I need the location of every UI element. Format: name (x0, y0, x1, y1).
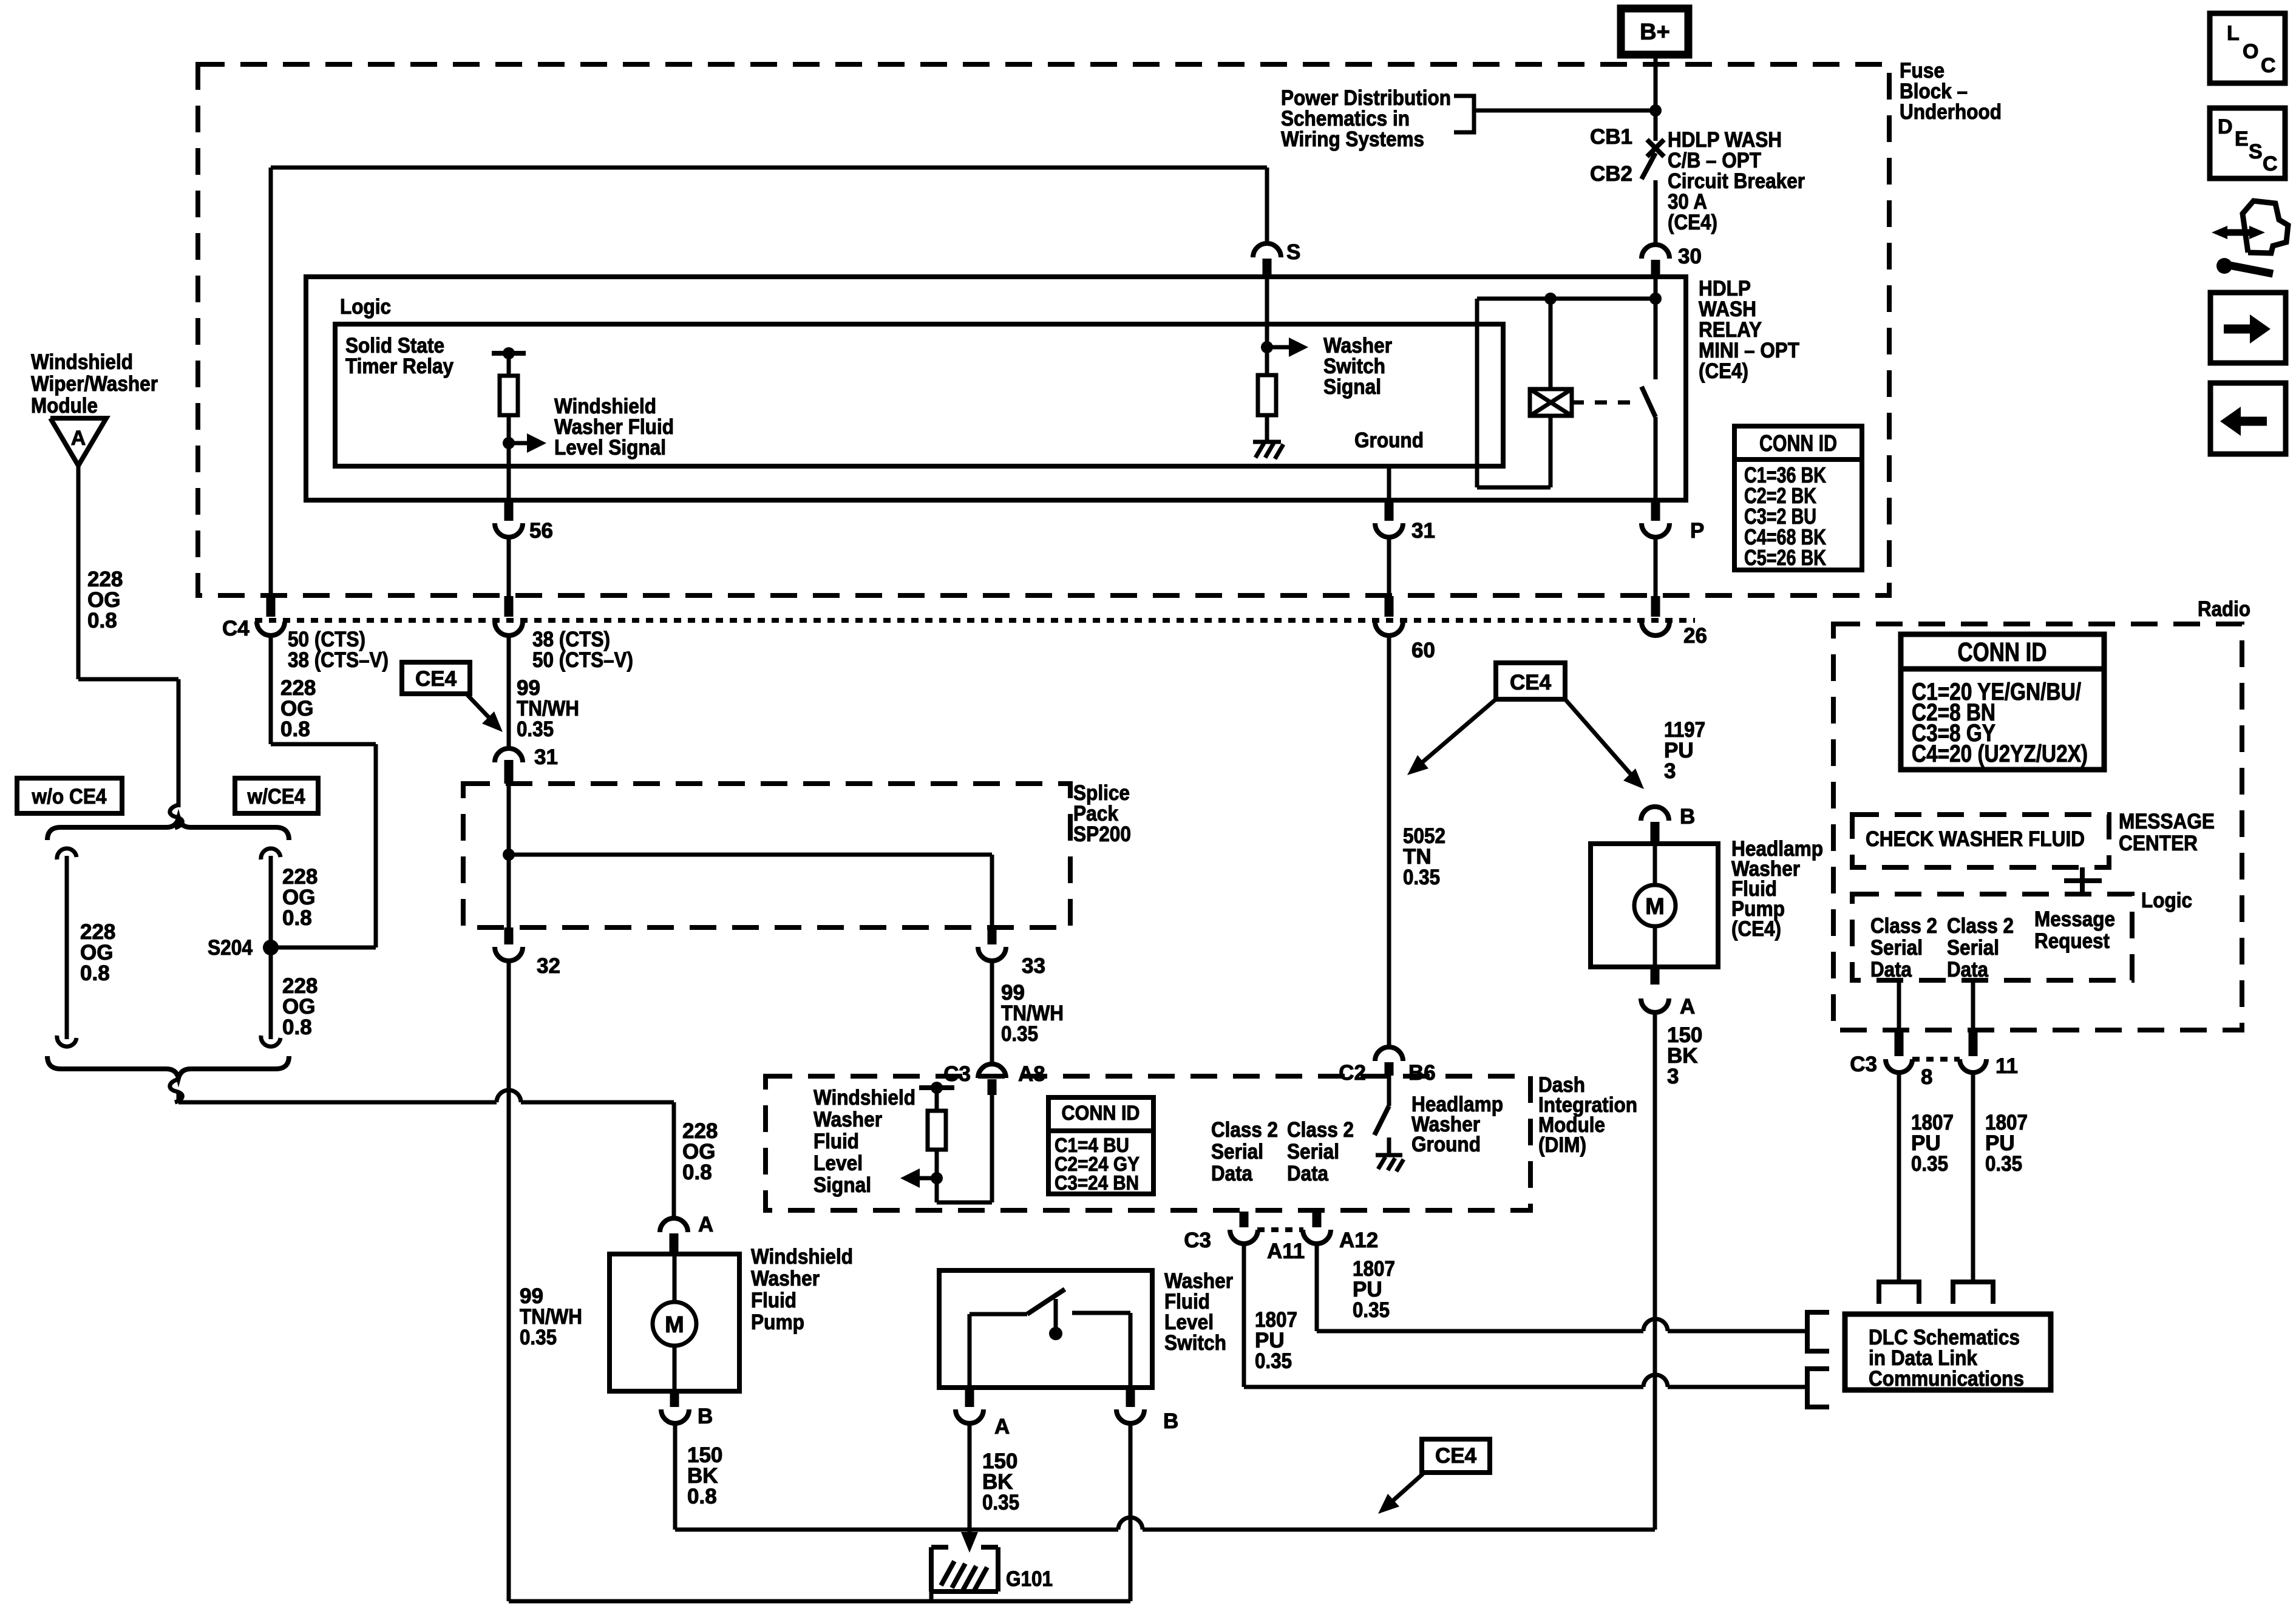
svg-text:Ground: Ground (1354, 429, 1424, 452)
svg-text:Timer Relay: Timer Relay (345, 354, 453, 378)
svg-text:Serial: Serial (1870, 936, 1923, 960)
svg-text:Data: Data (1947, 958, 1988, 981)
svg-text:Wiring Systems: Wiring Systems (1281, 127, 1424, 151)
svg-text:C5=26 BK: C5=26 BK (1744, 545, 1826, 570)
svg-text:A11: A11 (1267, 1239, 1305, 1263)
svg-text:P: P (1690, 519, 1704, 543)
svg-text:0.35: 0.35 (1255, 1349, 1292, 1373)
svg-text:Request: Request (2034, 929, 2110, 953)
svg-text:31: 31 (534, 745, 558, 769)
svg-text:Level Signal: Level Signal (554, 436, 666, 459)
svg-text:CENTER: CENTER (2119, 832, 2198, 855)
svg-text:C3: C3 (1850, 1053, 1877, 1076)
svg-text:C: C (2263, 152, 2278, 175)
svg-text:Data: Data (1287, 1162, 1328, 1185)
svg-text:31: 31 (1411, 519, 1435, 543)
svg-text:0.8: 0.8 (682, 1161, 712, 1184)
svg-text:S: S (2249, 140, 2263, 163)
svg-text:0.35: 0.35 (982, 1491, 1019, 1514)
svg-text:11: 11 (1995, 1054, 2018, 1078)
svg-text:D: D (2218, 115, 2233, 138)
svg-text:M: M (1645, 894, 1665, 920)
svg-text:E: E (2235, 127, 2249, 151)
svg-text:0.8: 0.8 (87, 609, 117, 632)
svg-text:B: B (1163, 1409, 1178, 1433)
svg-text:26: 26 (1683, 624, 1707, 648)
svg-text:C4=20 (U2YZ/U2X): C4=20 (U2YZ/U2X) (1912, 741, 2088, 767)
svg-text:Class 2: Class 2 (1870, 914, 1937, 938)
svg-text:Switch: Switch (1164, 1331, 1226, 1355)
svg-text:(CE4): (CE4) (1699, 359, 1748, 383)
svg-text:0.35: 0.35 (520, 1326, 557, 1349)
svg-text:32: 32 (537, 954, 560, 978)
svg-text:Washer: Washer (813, 1108, 882, 1131)
svg-text:S204: S204 (208, 936, 253, 960)
svg-text:B: B (1680, 805, 1695, 829)
svg-text:w/o CE4: w/o CE4 (32, 785, 107, 808)
svg-text:Module: Module (31, 394, 98, 418)
svg-text:0.35: 0.35 (1353, 1298, 1390, 1322)
svg-text:Serial: Serial (1287, 1140, 1339, 1164)
svg-text:3: 3 (1664, 759, 1676, 783)
svg-text:Windshield: Windshield (751, 1245, 853, 1269)
svg-text:50 (CTS–V): 50 (CTS–V) (532, 648, 633, 672)
svg-text:Pump: Pump (751, 1310, 804, 1334)
svg-text:0.8: 0.8 (282, 1015, 312, 1039)
svg-text:O: O (2243, 40, 2258, 63)
svg-text:L: L (2227, 22, 2240, 45)
svg-text:38 (CTS–V): 38 (CTS–V) (288, 648, 389, 672)
svg-text:Level: Level (813, 1151, 863, 1175)
svg-text:Class 2: Class 2 (1947, 914, 2014, 938)
svg-text:3: 3 (1667, 1065, 1679, 1088)
svg-text:G101: G101 (1006, 1567, 1053, 1591)
svg-text:Underhood: Underhood (1900, 100, 2002, 124)
svg-text:8: 8 (1921, 1065, 1932, 1089)
svg-text:0.8: 0.8 (280, 717, 310, 741)
svg-text:0.35: 0.35 (1985, 1152, 2022, 1176)
svg-text:Communications: Communications (1869, 1367, 2024, 1391)
svg-text:(CE4): (CE4) (1668, 211, 1717, 234)
svg-text:Message: Message (2034, 907, 2115, 931)
svg-text:C3=24 BN: C3=24 BN (1055, 1171, 1139, 1194)
svg-text:CB2: CB2 (1590, 162, 1632, 186)
svg-text:w/CE4: w/CE4 (247, 785, 305, 808)
svg-text:CB1: CB1 (1590, 125, 1632, 149)
svg-text:B6: B6 (1408, 1061, 1436, 1085)
svg-text:0.35: 0.35 (517, 717, 554, 741)
svg-text:Serial: Serial (1211, 1140, 1263, 1164)
svg-text:C2: C2 (1339, 1061, 1366, 1085)
svg-text:Radio: Radio (2198, 597, 2250, 621)
svg-text:Wiper/Washer: Wiper/Washer (31, 372, 158, 396)
svg-text:Signal: Signal (813, 1173, 871, 1197)
svg-text:A: A (698, 1213, 713, 1236)
svg-text:0.35: 0.35 (1001, 1022, 1038, 1046)
svg-text:CONN ID: CONN ID (1958, 637, 2047, 667)
svg-text:Class 2: Class 2 (1287, 1118, 1354, 1142)
svg-text:Data: Data (1211, 1162, 1252, 1185)
svg-text:0.8: 0.8 (687, 1485, 717, 1508)
svg-text:0.35: 0.35 (1403, 866, 1440, 889)
svg-text:0.8: 0.8 (80, 961, 110, 985)
svg-text:Ground: Ground (1411, 1133, 1481, 1156)
svg-text:M: M (665, 1312, 684, 1338)
svg-text:0.35: 0.35 (1911, 1152, 1948, 1176)
svg-text:Logic: Logic (340, 295, 391, 319)
svg-text:Class 2: Class 2 (1211, 1118, 1278, 1142)
svg-text:30: 30 (1678, 245, 1702, 268)
svg-text:(CE4): (CE4) (1731, 917, 1781, 941)
svg-text:B: B (698, 1405, 713, 1428)
svg-text:C4: C4 (222, 617, 250, 640)
svg-text:Windshield: Windshield (813, 1086, 915, 1110)
svg-text:C3: C3 (1184, 1229, 1211, 1252)
svg-text:Logic: Logic (2141, 889, 2192, 912)
svg-text:Data: Data (1870, 958, 1912, 981)
svg-text:60: 60 (1411, 639, 1435, 662)
svg-text:CE4: CE4 (1435, 1444, 1477, 1468)
svg-text:Washer: Washer (751, 1267, 820, 1290)
svg-text:A12: A12 (1339, 1229, 1378, 1252)
svg-text:CONN ID: CONN ID (1062, 1102, 1140, 1125)
svg-text:SP200: SP200 (1073, 822, 1131, 846)
svg-text:CE4: CE4 (415, 667, 457, 691)
svg-text:0.8: 0.8 (282, 906, 312, 930)
svg-text:S: S (1286, 240, 1300, 264)
svg-text:Serial: Serial (1947, 936, 1999, 960)
svg-text:CONN ID: CONN ID (1759, 431, 1837, 456)
svg-text:CE4: CE4 (1510, 671, 1552, 694)
svg-text:C: C (2261, 54, 2276, 77)
svg-text:56: 56 (529, 519, 553, 543)
svg-text:A: A (1680, 995, 1695, 1019)
svg-text:33: 33 (1022, 954, 1045, 978)
svg-text:Windshield: Windshield (31, 350, 133, 374)
svg-text:B+: B+ (1640, 19, 1670, 45)
svg-text:Signal: Signal (1323, 375, 1381, 399)
svg-text:A: A (71, 427, 86, 450)
svg-text:Fluid: Fluid (751, 1289, 796, 1312)
svg-text:(DIM): (DIM) (1538, 1133, 1586, 1157)
svg-text:A: A (994, 1415, 1010, 1439)
svg-text:CHECK WASHER FLUID: CHECK WASHER FLUID (1866, 827, 2085, 851)
svg-text:Fluid: Fluid (813, 1130, 859, 1153)
svg-text:MESSAGE: MESSAGE (2119, 810, 2215, 833)
